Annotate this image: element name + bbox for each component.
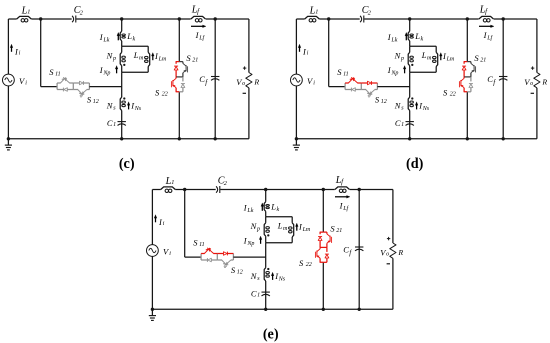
svg-text:Lk: Lk [102, 37, 109, 43]
svg-text:Np: Np [246, 241, 254, 247]
svg-text:1: 1 [315, 9, 318, 16]
svg-text:1: 1 [257, 293, 260, 299]
svg-text:Ns: Ns [134, 106, 142, 112]
svg-text:1: 1 [401, 122, 404, 128]
svg-text:S: S [375, 95, 380, 105]
svg-text:22: 22 [162, 92, 168, 98]
svg-text:22: 22 [306, 262, 312, 268]
svg-text:1: 1 [27, 9, 30, 16]
svg-text:22: 22 [450, 92, 456, 98]
svg-text:L: L [270, 202, 276, 212]
svg-text:Lk: Lk [246, 208, 253, 214]
svg-text:2: 2 [80, 9, 83, 16]
svg-text:p: p [400, 56, 404, 62]
svg-text:o: o [242, 81, 245, 87]
svg-text:m: m [427, 56, 432, 62]
svg-text:1: 1 [113, 122, 116, 128]
svg-text:R: R [253, 77, 259, 86]
svg-text:S: S [186, 53, 191, 63]
svg-text:(c): (c) [119, 156, 135, 172]
svg-text:p: p [112, 56, 116, 62]
svg-text:m: m [283, 226, 288, 232]
svg-text:2: 2 [368, 9, 371, 16]
svg-text:S: S [87, 95, 92, 105]
svg-text:21: 21 [480, 58, 486, 64]
svg-text:Lk: Lk [390, 37, 397, 43]
svg-text:S: S [330, 224, 335, 234]
svg-text:L: L [133, 50, 139, 60]
svg-text:o: o [386, 252, 389, 258]
svg-text:R: R [541, 77, 547, 86]
svg-text:(d): (d) [406, 156, 424, 172]
svg-text:Lm: Lm [158, 57, 167, 63]
svg-text:12: 12 [381, 99, 387, 105]
svg-text:2: 2 [224, 180, 227, 187]
svg-text:S: S [337, 67, 342, 77]
svg-text:21: 21 [192, 58, 198, 64]
svg-text:Lm: Lm [302, 227, 311, 233]
svg-text:C: C [251, 288, 257, 298]
svg-text:11: 11 [199, 242, 205, 248]
svg-text:Ns: Ns [278, 277, 286, 283]
svg-text:R: R [397, 248, 403, 257]
svg-text:21: 21 [336, 228, 342, 234]
svg-text:12: 12 [237, 269, 243, 275]
svg-text:p: p [256, 226, 260, 232]
svg-text:12: 12 [93, 99, 99, 105]
svg-text:11: 11 [343, 72, 349, 78]
svg-text:L: L [277, 221, 283, 231]
svg-text:C: C [107, 118, 113, 128]
svg-text:k: k [133, 37, 136, 43]
svg-text:C: C [395, 118, 401, 128]
svg-text:k: k [421, 37, 424, 43]
svg-text:Ns: Ns [422, 106, 430, 112]
svg-text:L: L [414, 31, 420, 41]
svg-text:S: S [231, 265, 236, 275]
svg-text:(e): (e) [263, 327, 279, 343]
svg-text:L: L [421, 50, 427, 60]
svg-text:L: L [126, 31, 132, 41]
svg-text:S: S [49, 67, 54, 77]
svg-text:Np: Np [390, 70, 398, 76]
svg-text:S: S [474, 53, 479, 63]
svg-text:Np: Np [102, 70, 110, 76]
svg-text:11: 11 [55, 72, 61, 78]
svg-text:Lm: Lm [446, 57, 455, 63]
svg-text:k: k [277, 207, 280, 213]
svg-text:m: m [139, 56, 144, 62]
svg-text:o: o [530, 81, 533, 87]
svg-text:S: S [193, 238, 198, 248]
svg-text:1: 1 [171, 179, 174, 186]
